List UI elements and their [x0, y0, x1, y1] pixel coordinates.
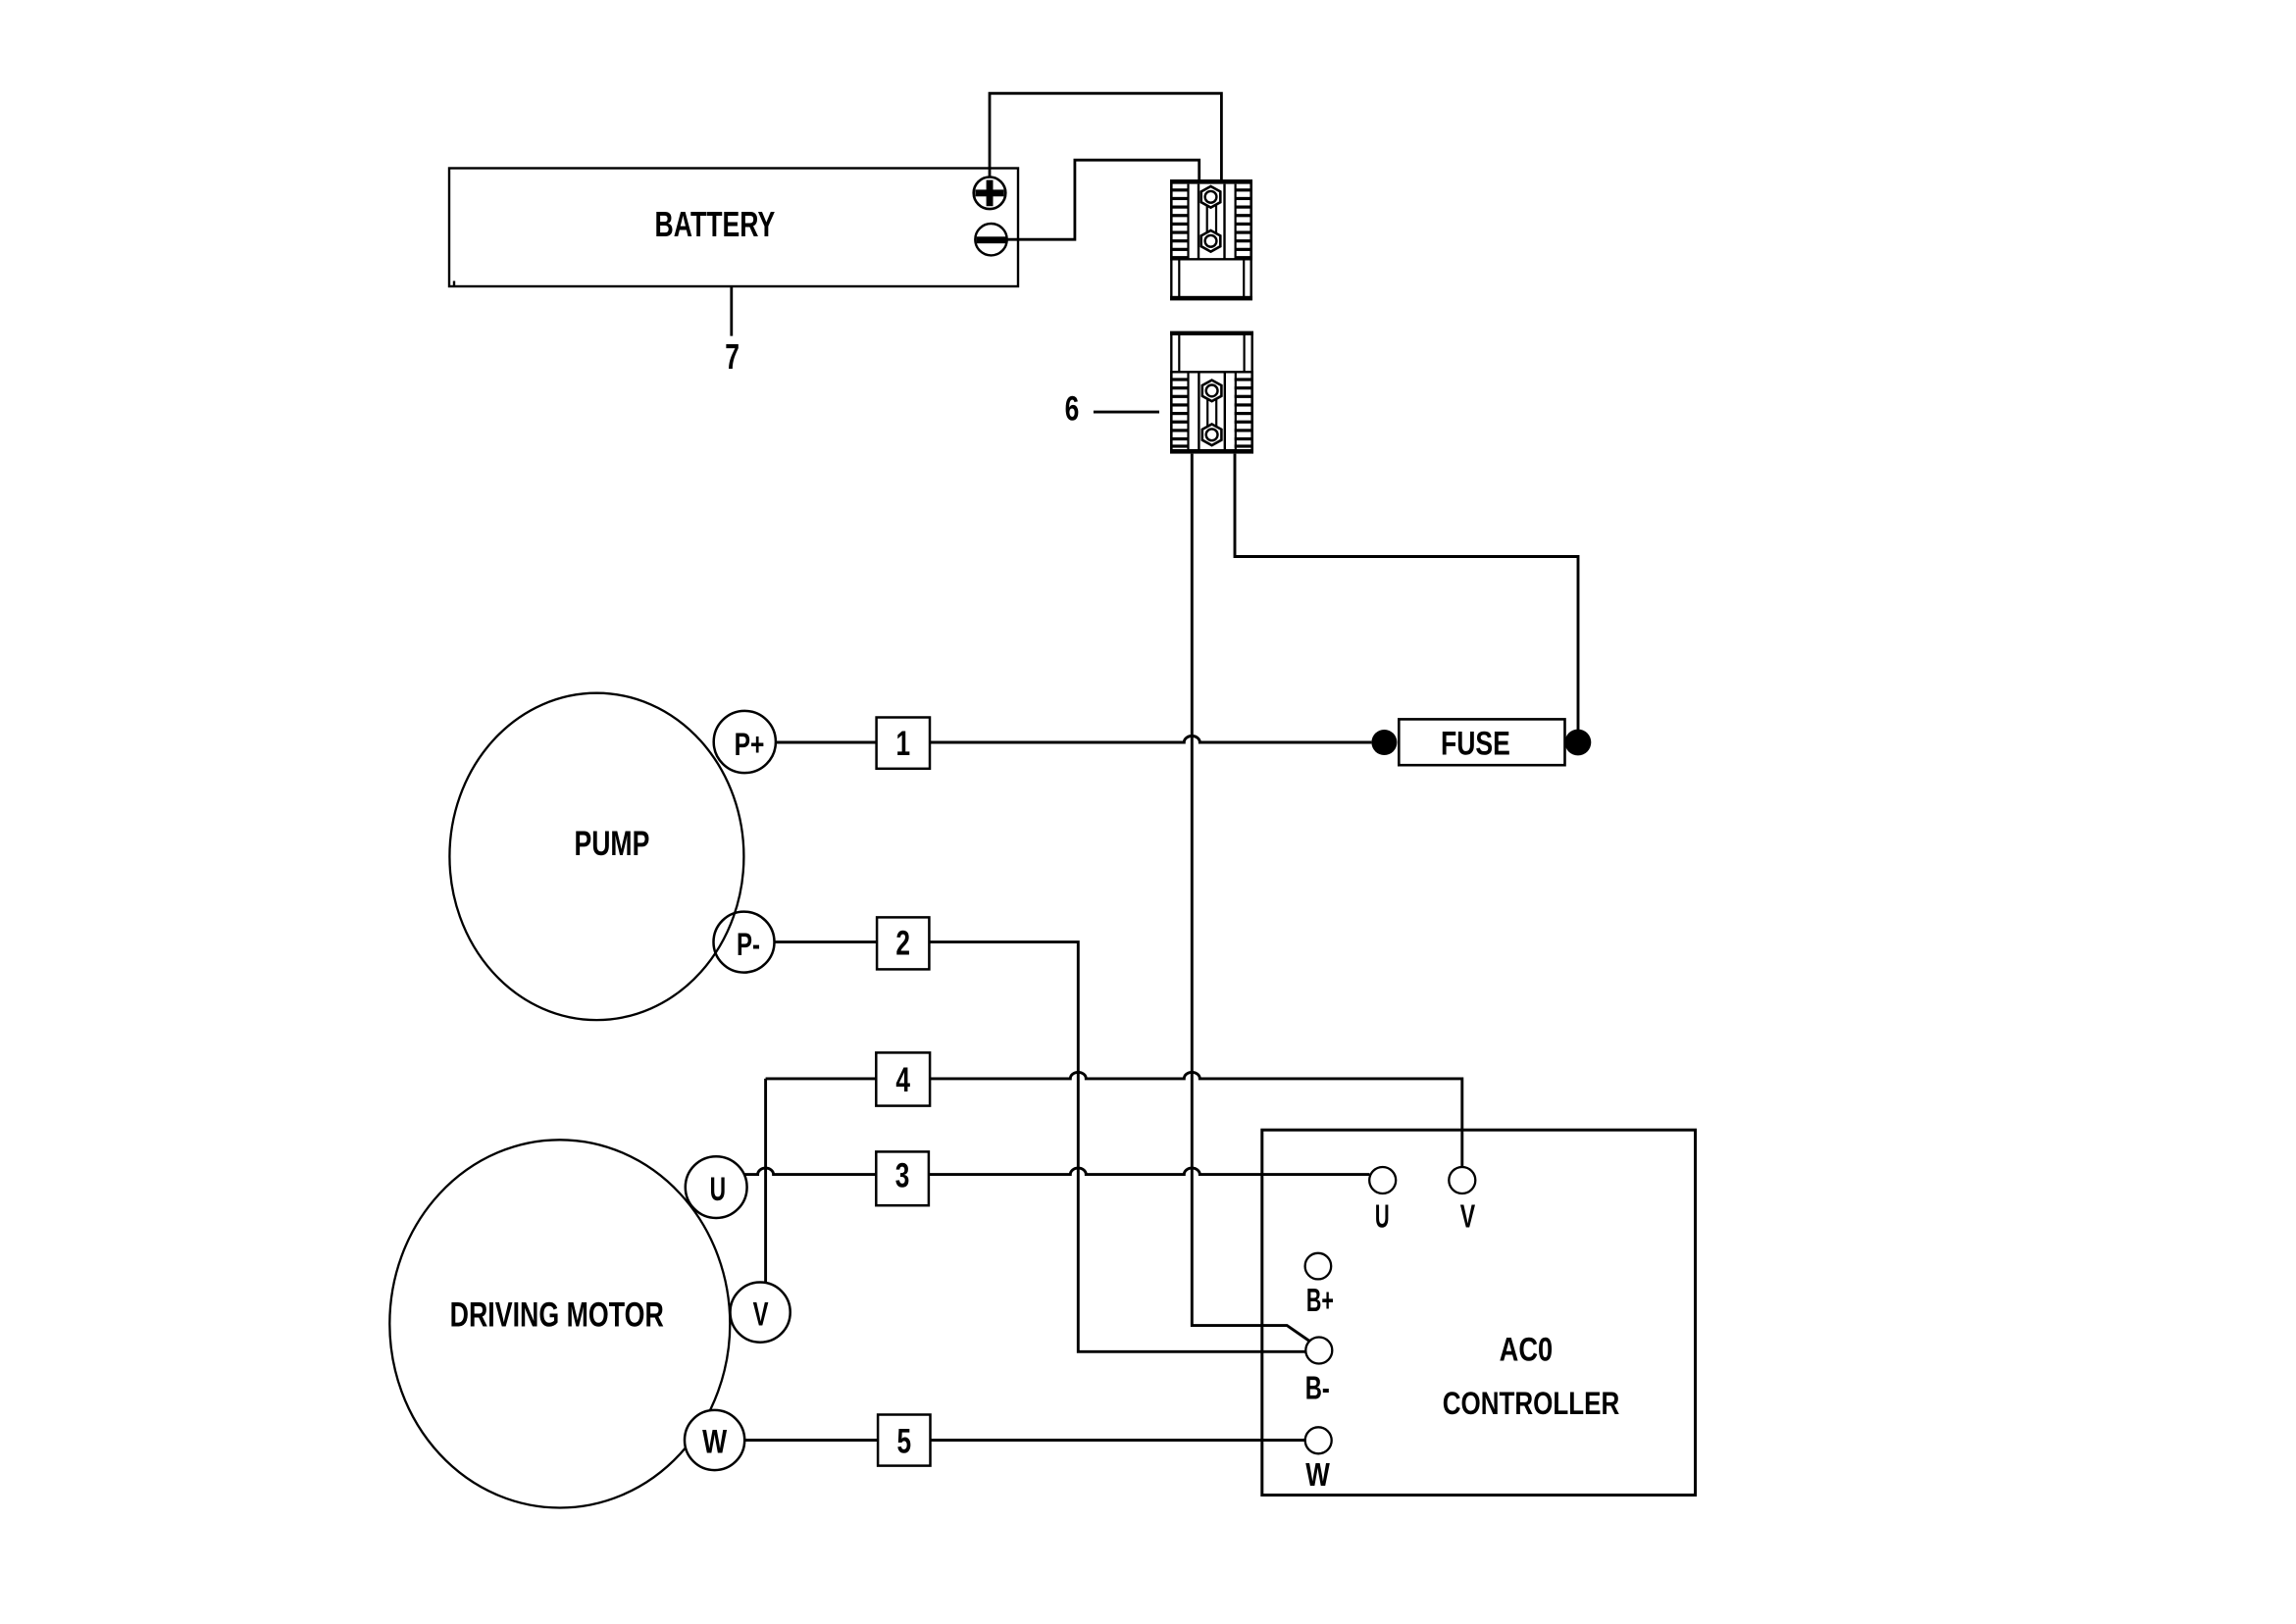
- motor terminal W: [685, 1410, 744, 1470]
- svg-text:7: 7: [725, 336, 740, 377]
- wire tag box 5: [878, 1415, 930, 1466]
- wire battery - to connector J1 left pin: [1007, 160, 1199, 239]
- motor terminal U: [686, 1156, 747, 1218]
- svg-text:CONTROLLER: CONTROLLER: [1443, 1386, 1620, 1421]
- svg-text:B-: B-: [1305, 1371, 1330, 1407]
- wire 2: P- to controller B-: [775, 942, 1306, 1352]
- wire motor V branch vertical: [764, 1079, 767, 1283]
- pump terminal P+: [714, 711, 776, 773]
- svg-text:3: 3: [895, 1156, 910, 1195]
- controller terminal B+: [1305, 1253, 1334, 1318]
- wire 1: P+ to fuse (with hop over J6 wire): [776, 736, 1372, 743]
- svg-text:W: W: [1305, 1457, 1330, 1494]
- wire connector J6 left pin down to controller B-: [1192, 454, 1309, 1342]
- svg-text:W: W: [702, 1423, 727, 1460]
- svg-text:P+: P+: [735, 728, 765, 763]
- connector J1 (upper half, battery side): [1170, 179, 1252, 300]
- wire tag box 1: [877, 718, 930, 769]
- svg-text:B+: B+: [1306, 1282, 1334, 1318]
- svg-text:5: 5: [897, 1422, 912, 1461]
- controller terminal U: [1369, 1167, 1396, 1235]
- pump M2 body: [449, 693, 743, 1020]
- motor terminal V: [731, 1283, 791, 1343]
- svg-text:FUSE: FUSE: [1441, 724, 1510, 762]
- svg-text:P-: P-: [737, 927, 760, 962]
- pump terminal P-: [714, 912, 775, 973]
- wire 4: branch to controller V (with hops): [766, 1072, 1462, 1167]
- controller terminal B-: [1305, 1338, 1333, 1407]
- fuse left terminal dot: [1371, 730, 1397, 755]
- wire tag box 4: [876, 1052, 930, 1105]
- controller terminal V: [1449, 1167, 1475, 1236]
- fuse F1: [1399, 719, 1564, 765]
- wire 5: motor W to controller W: [744, 1439, 1305, 1442]
- wire connector J6 right pin to fuse right terminal: [1235, 454, 1578, 734]
- svg-text:2: 2: [895, 924, 910, 963]
- battery negative terminal: [975, 224, 1006, 255]
- wire tag box 2: [877, 917, 929, 969]
- wire 3: motor U to controller U (with hops): [744, 1168, 1370, 1175]
- svg-text:AC0: AC0: [1500, 1331, 1554, 1369]
- driving motor M1 body: [389, 1140, 730, 1507]
- svg-text:4: 4: [895, 1060, 910, 1099]
- svg-text:BATTERY: BATTERY: [655, 204, 776, 244]
- svg-text:V: V: [1460, 1199, 1475, 1236]
- battery B1 box: [449, 169, 1018, 287]
- svg-text:U: U: [710, 1172, 726, 1209]
- svg-text:1: 1: [896, 724, 911, 763]
- svg-text:6: 6: [1065, 389, 1080, 429]
- label 6 leader line: [1094, 411, 1159, 414]
- svg-text:PUMP: PUMP: [574, 825, 649, 863]
- wire tag box 3: [876, 1151, 929, 1205]
- battery leader line: [730, 287, 733, 336]
- controller terminal W: [1305, 1427, 1332, 1493]
- svg-text:V: V: [753, 1295, 769, 1333]
- battery positive terminal: [974, 178, 1006, 210]
- connector J6 (lower half, harness side): [1170, 331, 1253, 454]
- fuse right terminal dot: [1565, 730, 1592, 756]
- controller U1 box: [1262, 1130, 1696, 1495]
- wire battery + to connector J1 right pin: [990, 93, 1221, 179]
- svg-text:DRIVING MOTOR: DRIVING MOTOR: [450, 1295, 664, 1334]
- svg-text:U: U: [1375, 1198, 1390, 1235]
